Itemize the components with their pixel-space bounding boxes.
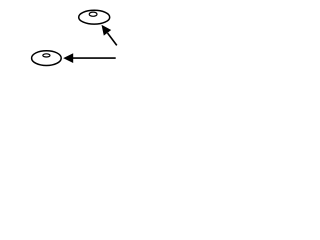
cell B nucleus (inner ellipse) xyxy=(43,54,50,57)
wire: diagonal arrow shaft into cell A xyxy=(108,33,117,45)
cell A nucleus (inner ellipse) xyxy=(89,12,97,16)
wire: horizontal arrow shaft into cell B xyxy=(72,57,116,59)
arrowhead pointing left at cell B xyxy=(63,53,73,63)
cell A (top right) outer ellipse xyxy=(79,10,110,24)
cell B (bottom left) outer ellipse xyxy=(32,51,62,66)
arrowhead pointing up-left at cell A xyxy=(102,25,112,36)
background xyxy=(0,0,150,77)
